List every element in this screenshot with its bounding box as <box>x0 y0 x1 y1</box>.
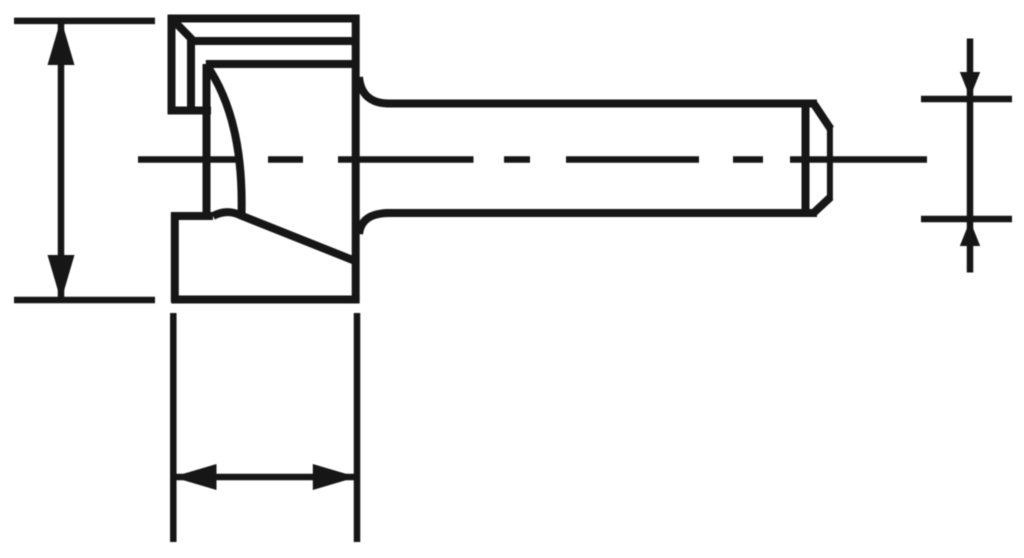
right dimension bottom extension line <box>921 216 1012 223</box>
centerline segment 7 <box>790 156 927 163</box>
shank top line <box>386 100 817 108</box>
left dimension top extension line <box>14 18 155 25</box>
curved flute face <box>206 64 242 215</box>
cutter body top shoulder line <box>206 60 356 68</box>
cutter top edge <box>168 15 360 23</box>
bottom dimension right arrowhead <box>313 464 357 490</box>
shank end right edge <box>827 127 833 200</box>
left dimension bottom arrowhead <box>48 255 75 301</box>
cutter upper-left vertical edge <box>168 15 176 114</box>
left dimension line <box>58 21 65 300</box>
right dimension bottom arrowhead <box>960 221 980 247</box>
shank top fillet <box>359 77 389 104</box>
shank bottom fillet <box>359 213 389 234</box>
bottom line of upper-left notch <box>168 107 211 115</box>
lower flute bump and bevel diagonal <box>213 212 357 261</box>
bottom dimension line <box>174 474 357 481</box>
upper-left corner diagonal (3D edge) <box>174 21 194 42</box>
lower wedge left vertical edge <box>171 212 179 302</box>
shank chamfer start vertical <box>802 100 810 216</box>
bottom dimension left extension line <box>170 313 177 542</box>
centerline segment 5 <box>566 156 699 163</box>
left dimension bottom extension line <box>14 297 155 304</box>
centerline segment 3 <box>338 156 474 163</box>
right dimension top extension line <box>921 96 1012 103</box>
right dimension top arrowhead <box>960 72 980 98</box>
bottom dimension left arrowhead <box>173 464 217 490</box>
right dimension line <box>967 39 974 273</box>
centerline dash 6 <box>733 156 763 163</box>
centerline segment 1 <box>138 156 240 163</box>
left dimension top arrowhead <box>48 19 75 65</box>
shank end top chamfer <box>814 104 831 129</box>
centerline dash 2 <box>268 156 303 163</box>
straight front cutting edge <box>203 64 211 216</box>
shank end bottom chamfer <box>814 197 831 212</box>
shank bottom line <box>386 209 817 217</box>
far cutting-edge top line <box>191 37 356 45</box>
lower wedge top edge <box>171 212 213 220</box>
bottom dimension right extension line <box>354 313 361 542</box>
inner vertical of upper-left notch <box>187 38 195 114</box>
cutter right vertical edge <box>352 15 360 303</box>
cutter bottom edge <box>171 296 359 304</box>
centerline dash 4 <box>504 156 530 163</box>
